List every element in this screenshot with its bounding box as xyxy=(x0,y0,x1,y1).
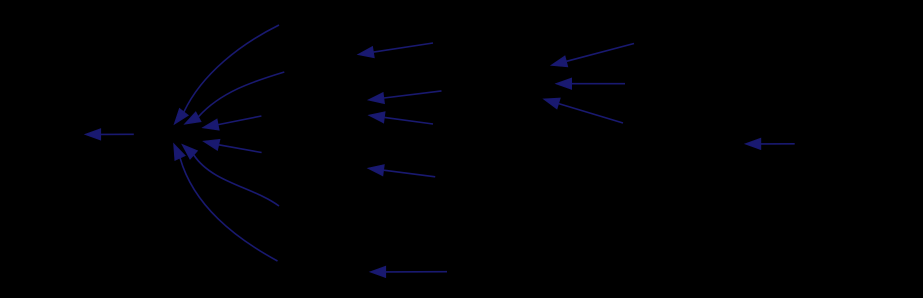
edge n3y91->n2b xyxy=(368,91,442,104)
edge n2y107->B xyxy=(202,116,261,130)
edge n3y177->n2c xyxy=(368,165,436,177)
edge n4y84->n3 xyxy=(556,78,626,90)
edge n2y25->B xyxy=(174,25,279,125)
edge n2y261->B xyxy=(174,143,278,261)
edge n4y43->n3 xyxy=(551,44,634,67)
edge n5->n4 xyxy=(745,138,795,150)
edge n3y43->n2a xyxy=(358,43,434,58)
edge B->A xyxy=(85,129,134,141)
edge n2y160->B xyxy=(203,139,262,152)
edge n2y72->B xyxy=(184,72,284,124)
edge n3y124->n2b xyxy=(368,112,433,124)
edge n3y272->n2d xyxy=(370,266,447,278)
edge n2y206->B xyxy=(182,144,279,206)
edge n4y123->n3 xyxy=(543,98,623,123)
